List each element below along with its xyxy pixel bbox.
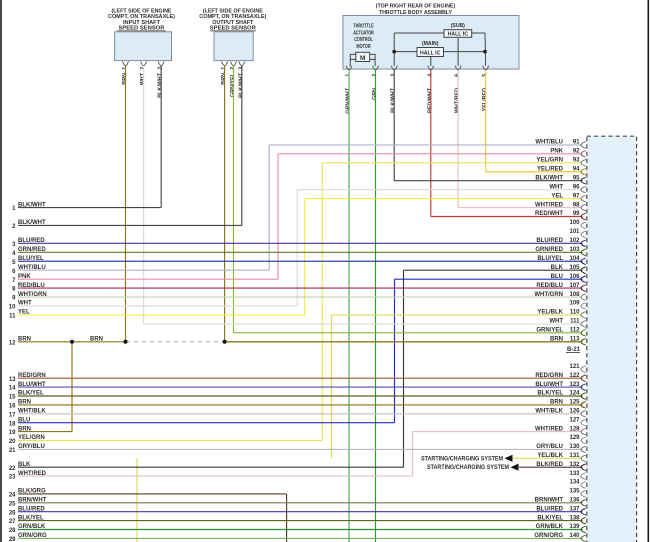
left row 2 BLK/WHT xyxy=(12,220,242,230)
svg-text:11: 11 xyxy=(9,314,16,320)
wire throttle pin3 BLK/WHT drop xyxy=(393,70,395,181)
svg-text:BLU/YEL: BLU/YEL xyxy=(18,256,44,262)
wire sensor2 pin3 BLK/WHT drop xyxy=(241,66,243,226)
left row 24 BLK/ORG xyxy=(9,489,287,499)
svg-text:BRN: BRN xyxy=(550,400,563,406)
svg-text:RED/GRN: RED/GRN xyxy=(535,373,563,379)
svg-text:140: 140 xyxy=(569,533,580,539)
wire WHT riser xyxy=(296,190,298,306)
svg-text:131: 131 xyxy=(569,453,580,459)
left row 19 BRN xyxy=(9,426,72,436)
svg-text:BLK/YEL: BLK/YEL xyxy=(537,515,563,521)
svg-text:99: 99 xyxy=(573,211,580,217)
wire throttle pin4 RED/WHT drop xyxy=(430,70,432,217)
wire throttle pin5 YEL/RED drop xyxy=(485,70,487,172)
svg-text:WHT/GRN: WHT/GRN xyxy=(534,292,563,298)
wire WHT/RED riser xyxy=(412,432,414,477)
wire pin3 to HALL ICs xyxy=(394,33,444,66)
svg-text:91: 91 xyxy=(573,140,580,146)
node 134 (empty pin) xyxy=(569,480,585,489)
svg-text:GRN/RED: GRN/RED xyxy=(18,247,46,253)
svg-text:THROTTLE: THROTTLE xyxy=(353,24,374,30)
node 108 WHT/GRN xyxy=(18,292,586,301)
page border left xyxy=(0,0,2,542)
svg-text:ACTUATOR: ACTUATOR xyxy=(353,30,374,36)
input sensor pin 3 BLK/WHT xyxy=(158,62,165,98)
svg-text:100: 100 xyxy=(569,220,580,226)
node 127 (empty pin) xyxy=(569,417,585,426)
wire sub to pin6 xyxy=(457,37,459,66)
node 138 BLK/YEL xyxy=(18,515,586,524)
svg-text:HALL IC: HALL IC xyxy=(448,32,469,38)
svg-text:103: 103 xyxy=(569,247,580,253)
wire sensor2 pin1 BRN drop xyxy=(224,66,226,342)
wire sensor1 pin1 BRN drop xyxy=(125,66,127,342)
node 131 YEL/BLK xyxy=(513,453,586,462)
svg-text:129: 129 xyxy=(569,435,580,441)
svg-text:M: M xyxy=(360,55,365,62)
svg-text:13: 13 xyxy=(9,377,16,383)
svg-text:128: 128 xyxy=(569,426,580,432)
svg-text:BLK/WHT: BLK/WHT xyxy=(535,175,563,181)
input shaft speed sensor box xyxy=(108,9,175,61)
svg-text:94: 94 xyxy=(573,166,580,172)
svg-text:134: 134 xyxy=(569,480,580,486)
svg-text:124: 124 xyxy=(569,391,580,397)
node 110 YEL/BLK xyxy=(332,310,586,319)
wire BLU riser xyxy=(394,279,396,423)
wire YEL/GRN riser xyxy=(321,163,323,441)
svg-text:BLK: BLK xyxy=(551,265,564,271)
junction dot main-right xyxy=(483,50,487,54)
svg-text:112: 112 xyxy=(570,328,580,334)
wire BRN drop row12 to row19 xyxy=(71,342,73,432)
left row 29 GRN/ORG xyxy=(9,533,47,542)
motor M symbol xyxy=(349,52,376,66)
svg-text:BLK/YEL: BLK/YEL xyxy=(18,515,44,521)
node 98 WHT/RED xyxy=(458,202,586,211)
svg-text:WHT: WHT xyxy=(549,319,563,325)
svg-text:YEL: YEL xyxy=(551,193,563,199)
throttle pin 2 GRN xyxy=(372,66,379,100)
node 99 RED/WHT xyxy=(431,211,586,220)
svg-text:YEL/RED: YEL/RED xyxy=(537,166,564,172)
svg-text:121: 121 xyxy=(569,364,580,370)
node 139 GRN/BLK xyxy=(18,524,586,533)
left row 28 GRN/BLK xyxy=(9,524,46,534)
svg-text:GRN/RED: GRN/RED xyxy=(535,247,563,253)
throttle actuator control motor label xyxy=(353,24,374,50)
svg-text:GRY/BLU: GRY/BLU xyxy=(18,444,45,450)
throttle pin 4 RED/WHT xyxy=(427,66,434,113)
svg-text:PNK: PNK xyxy=(550,149,563,155)
left row 14 BLU/WHT xyxy=(9,382,46,392)
node 105 BLK xyxy=(404,265,586,274)
wire sensor1 pin2 WHT drop xyxy=(143,66,145,324)
svg-text:BLK/YEL: BLK/YEL xyxy=(18,391,44,397)
left row 13 RED/GRN xyxy=(9,373,46,383)
svg-text:BRN/WHT: BRN/WHT xyxy=(18,498,47,504)
svg-text:21: 21 xyxy=(9,448,16,454)
left row 15 BLK/YEL xyxy=(9,391,44,401)
svg-text:(SUB): (SUB) xyxy=(451,23,465,29)
throttle body assembly box xyxy=(343,3,519,69)
connector label B-21 xyxy=(566,347,581,353)
output sensor pin 3 BLK/WHT xyxy=(238,62,245,98)
svg-text:28: 28 xyxy=(9,528,16,534)
HALL IC (MAIN) box xyxy=(417,41,444,57)
left row 25 BRN/WHT xyxy=(9,498,47,508)
svg-text:98: 98 xyxy=(573,202,580,208)
svg-text:GRY/BLU: GRY/BLU xyxy=(536,444,563,450)
node 97 YEL xyxy=(305,193,586,202)
node 103 GRN/RED xyxy=(18,247,586,256)
left row 3 BLU/RED xyxy=(12,238,45,248)
svg-text:HALL IC: HALL IC xyxy=(420,50,441,56)
left row 26 BLU/RED xyxy=(9,506,46,516)
svg-text:130: 130 xyxy=(569,444,580,450)
connector B-21 box xyxy=(587,136,637,542)
left row 16 BRN xyxy=(9,400,31,410)
svg-text:GRN/ORG: GRN/ORG xyxy=(534,533,563,539)
node 101 (empty pin) xyxy=(569,229,585,238)
node 94 YEL/RED xyxy=(486,166,586,175)
node 129 (empty pin) xyxy=(569,435,585,444)
svg-text:17: 17 xyxy=(9,412,16,418)
junction dot row12 a xyxy=(70,340,74,344)
svg-text:106: 106 xyxy=(569,274,580,280)
wire sensor1 pin3 BLK/WHT drop xyxy=(160,66,162,208)
left row 9 WHT/GRN xyxy=(12,292,47,302)
svg-text:STARTING/CHARGING SYSTEM: STARTING/CHARGING SYSTEM xyxy=(427,465,509,471)
node 123 BLU/WHT xyxy=(18,382,586,391)
svg-text:WHT/RED: WHT/RED xyxy=(535,426,564,432)
svg-text:RED/BLU: RED/BLU xyxy=(536,283,563,289)
left row 10 WHT xyxy=(9,301,297,311)
junction dot row12 c xyxy=(223,340,227,344)
svg-text:14: 14 xyxy=(9,386,16,392)
svg-text:133: 133 xyxy=(569,471,580,477)
svg-text:27: 27 xyxy=(9,519,16,525)
left row 8 RED/BLU xyxy=(12,283,45,293)
left row 7 PNK xyxy=(12,274,278,284)
svg-text:93: 93 xyxy=(573,158,580,164)
node 125 BRN xyxy=(18,400,586,409)
left row 12 BRN bus xyxy=(9,337,583,347)
output shaft speed sensor box xyxy=(199,9,266,61)
svg-text:102: 102 xyxy=(569,238,580,244)
throttle pin 1 GRN/WHT xyxy=(346,66,353,114)
svg-text:92: 92 xyxy=(573,149,580,155)
svg-text:23: 23 xyxy=(9,475,16,481)
left row 1 BLK/WHT xyxy=(12,202,161,212)
throttle pin 5 YEL/RED xyxy=(482,66,489,112)
svg-text:107: 107 xyxy=(569,283,580,289)
wire sensor2 pin2 GRN/YEL drop xyxy=(233,66,235,333)
svg-text:10: 10 xyxy=(9,305,16,311)
left row 18 BLU xyxy=(9,417,395,427)
svg-text:GRN/YEL: GRN/YEL xyxy=(536,328,563,334)
wire main to pin4 xyxy=(430,57,432,67)
left row 5 BLU/YEL xyxy=(12,256,44,266)
svg-text:125: 125 xyxy=(569,400,580,406)
wire PNK riser xyxy=(277,154,279,279)
left row 27 BLK/YEL xyxy=(9,515,44,525)
left row 11 YEL xyxy=(9,310,304,320)
svg-text:RED/WHT: RED/WHT xyxy=(535,211,563,217)
svg-text:WHT: WHT xyxy=(549,184,563,190)
svg-text:101: 101 xyxy=(569,229,580,235)
left row 20 YEL/GRN xyxy=(9,435,322,445)
svg-text:MOTOR: MOTOR xyxy=(356,44,370,50)
svg-text:WHT/BLU: WHT/BLU xyxy=(535,140,563,146)
left row 4 GRN/RED xyxy=(12,247,46,257)
svg-text:BLU/WHT: BLU/WHT xyxy=(18,382,46,388)
node 111 WHT xyxy=(144,319,586,328)
svg-text:GRN/BLK: GRN/BLK xyxy=(536,524,564,530)
svg-text:YEL/BLK: YEL/BLK xyxy=(537,453,563,459)
node 104 BLU/YEL xyxy=(18,256,586,265)
node 102 BLU/RED xyxy=(18,238,586,247)
output sensor pin 2 GRN/YEL xyxy=(230,62,237,97)
svg-text:RED/GRN: RED/GRN xyxy=(18,373,46,379)
svg-text:126: 126 xyxy=(569,409,580,415)
svg-text:20: 20 xyxy=(9,439,16,445)
input sensor pin 1 BRN xyxy=(122,62,129,85)
left row 17 WHT/BLK xyxy=(9,409,47,419)
page border right xyxy=(647,0,649,542)
off-page arrow starting/charging system xyxy=(427,464,519,472)
svg-text:26: 26 xyxy=(9,510,16,516)
svg-text:29: 29 xyxy=(9,537,16,542)
node 113 BRN xyxy=(225,337,586,346)
wire YEL/BLK drop to bottom xyxy=(136,458,138,542)
left row 21 GRY/BLU xyxy=(9,444,45,454)
svg-text:104: 104 xyxy=(569,256,580,262)
svg-text:135: 135 xyxy=(569,489,580,495)
svg-text:139: 139 xyxy=(569,524,580,530)
input sensor pin 2 WHT xyxy=(140,62,147,86)
svg-text:16: 16 xyxy=(9,404,16,410)
node 140 GRN/ORG xyxy=(18,533,586,542)
svg-text:BRN: BRN xyxy=(90,337,103,343)
svg-text:110: 110 xyxy=(570,310,580,316)
svg-text:132: 132 xyxy=(569,462,580,468)
svg-text:95: 95 xyxy=(573,175,580,181)
svg-text:137: 137 xyxy=(569,506,580,512)
svg-text:BLU: BLU xyxy=(551,274,563,280)
svg-text:STARTING/CHARGING SYSTEM: STARTING/CHARGING SYSTEM xyxy=(421,456,503,462)
wire YEL/BLK riser xyxy=(331,315,333,458)
wire throttle pin2 GRN drop xyxy=(375,70,377,542)
node 92 PNK xyxy=(278,149,586,158)
left row 23 WHT/RED xyxy=(9,471,413,481)
junction dot main-left xyxy=(392,50,396,54)
svg-text:105: 105 xyxy=(569,265,580,271)
wire throttle pin6 WHT/RED drop xyxy=(457,70,459,208)
svg-text:BRN/WHT: BRN/WHT xyxy=(535,498,564,504)
node 109 (empty pin) xyxy=(569,301,585,310)
node 91 WHT/BLU xyxy=(269,140,586,149)
node 124 BLK/YEL xyxy=(18,391,586,400)
node 112 GRN/YEL xyxy=(234,328,586,337)
wire throttle pin1 GRN/WHT drop xyxy=(348,70,350,542)
svg-text:127: 127 xyxy=(569,417,580,423)
node 121 (empty pin) xyxy=(569,364,585,373)
svg-text:111: 111 xyxy=(570,319,580,325)
node 122 RED/GRN xyxy=(18,373,586,382)
svg-text:WHT/RED: WHT/RED xyxy=(535,202,564,208)
left row 6 WHT/BLU xyxy=(12,265,269,275)
svg-text:GRN/ORG: GRN/ORG xyxy=(18,533,47,539)
wire BLK riser xyxy=(403,270,405,467)
svg-text:109: 109 xyxy=(569,301,580,307)
svg-text:WHT/BLK: WHT/BLK xyxy=(535,409,563,415)
node 96 WHT xyxy=(297,184,586,193)
node 133 (empty pin) xyxy=(569,471,585,480)
node 107 RED/BLU xyxy=(18,283,586,292)
wire BLK/ORG drop xyxy=(286,494,288,542)
svg-text:BLU/WHT: BLU/WHT xyxy=(535,382,563,388)
svg-text:96: 96 xyxy=(573,184,580,190)
node 100 (empty pin) xyxy=(569,220,585,229)
node 93 YEL/GRN xyxy=(322,158,585,167)
svg-text:BLU/RED: BLU/RED xyxy=(18,506,45,512)
junction dot row12 b xyxy=(124,340,128,344)
svg-text:(MAIN): (MAIN) xyxy=(422,41,439,47)
wire WHT/BLU riser xyxy=(268,145,270,270)
node 128 WHT/RED xyxy=(413,426,586,435)
svg-text:15: 15 xyxy=(9,395,16,401)
node 135 (empty pin) xyxy=(569,489,585,498)
node 137 BLU/RED xyxy=(18,506,586,515)
svg-text:BLU/RED: BLU/RED xyxy=(536,506,563,512)
svg-text:123: 123 xyxy=(569,382,580,388)
svg-text:22: 22 xyxy=(9,466,16,472)
HALL IC (SUB) box xyxy=(444,23,472,38)
svg-text:BLU/YEL: BLU/YEL xyxy=(537,256,563,262)
svg-text:12: 12 xyxy=(9,340,16,346)
svg-text:YEL/GRN: YEL/GRN xyxy=(536,158,563,164)
svg-text:BLU/RED: BLU/RED xyxy=(536,238,563,244)
svg-text:122: 122 xyxy=(569,373,580,379)
svg-text:(TOP RIGHT REAR OF ENGINE): (TOP RIGHT REAR OF ENGINE) xyxy=(376,3,456,9)
throttle pin 6 WHT/RED xyxy=(455,66,462,113)
svg-text:BLK/YEL: BLK/YEL xyxy=(537,391,563,397)
wire main right to pin5 branch xyxy=(444,33,486,66)
svg-text:YEL/BLK: YEL/BLK xyxy=(537,310,563,316)
node 95 BLK/WHT xyxy=(394,175,586,184)
svg-text:24: 24 xyxy=(9,493,16,499)
svg-text:25: 25 xyxy=(9,501,16,507)
node 132 BLK/RED xyxy=(519,462,586,471)
svg-text:RED/BLU: RED/BLU xyxy=(18,283,45,289)
svg-text:BLK/RED: BLK/RED xyxy=(536,462,563,468)
svg-text:GRN/BLK: GRN/BLK xyxy=(18,524,46,530)
node 126 WHT/BLK xyxy=(18,409,586,418)
svg-text:138: 138 xyxy=(569,515,580,521)
off-page arrow starting/charging system xyxy=(421,455,513,463)
svg-text:136: 136 xyxy=(569,498,580,504)
svg-text:18: 18 xyxy=(9,421,16,427)
svg-text:CONTROL: CONTROL xyxy=(354,37,373,43)
svg-text:108: 108 xyxy=(569,292,580,298)
svg-text:BRN: BRN xyxy=(18,400,31,406)
output sensor pin 1 BRN xyxy=(221,62,228,85)
svg-text:97: 97 xyxy=(573,193,580,199)
node 136 BRN/WHT xyxy=(18,498,586,507)
throttle pin 3 BLK/WHT xyxy=(391,66,398,113)
svg-text:BLU/RED: BLU/RED xyxy=(18,238,45,244)
wire YEL riser xyxy=(304,199,306,315)
svg-text:WHT/GRN: WHT/GRN xyxy=(18,292,47,298)
svg-text:19: 19 xyxy=(9,430,16,436)
left row 22 BLK xyxy=(9,462,404,472)
svg-text:WHT/BLK: WHT/BLK xyxy=(18,409,46,415)
node 106 BLU xyxy=(395,274,586,283)
node 130 GRY/BLU xyxy=(18,444,586,453)
